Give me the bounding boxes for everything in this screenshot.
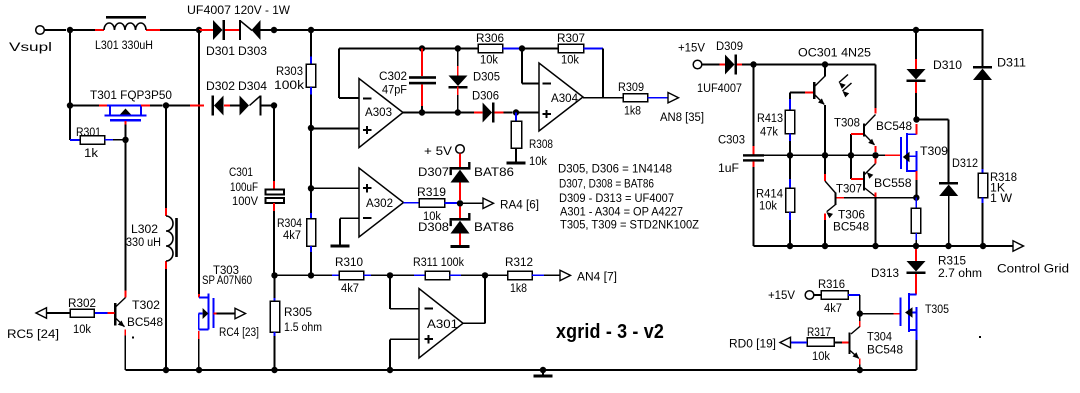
label Control Grid [997,262,1069,276]
svg-text:4k7: 4k7 [824,301,842,315]
label R317 value 10k [812,349,831,363]
junction R318 rail [980,243,986,249]
wire to R305 [274,275,276,301]
label D303 [238,44,267,58]
label D311 [997,56,1026,70]
wire red D301 anode [199,29,213,31]
diode D312 [939,182,958,246]
svg-text:D310: D310 [933,58,962,72]
svg-text:D307: D307 [418,165,449,179]
wire to RA4 arrow [460,202,483,204]
junction R413 bottom [787,152,793,158]
resistor R318 [978,169,988,246]
label R318 [990,170,1017,184]
svg-text:10k: 10k [529,154,548,168]
wire node to D308 [459,207,461,219]
label AN4 [7] [577,270,617,284]
wire 5V to D307 [459,154,461,168]
junction A303 plus node [308,125,314,131]
svg-text:A304: A304 [551,91,578,105]
svg-text:1.5 ohm: 1.5 ohm [284,320,322,334]
svg-text:R311 100k: R311 100k [413,255,465,269]
wire R305 to rail [274,332,276,370]
label L302 [131,222,158,236]
arrow RC5 [36,308,47,318]
wire column to A302 [310,128,312,188]
svg-text:T305: T305 [925,302,949,316]
transistor T307 BC558 [864,159,876,198]
svg-text:2.7 ohm: 2.7 ohm [938,266,982,280]
wire main top rail [311,29,916,31]
svg-text:L302: L302 [131,222,158,236]
label D308 [418,220,449,234]
label RA4 [6] [500,198,539,212]
wire top rail to D311 corner [916,29,983,66]
svg-text:AN4 [7]: AN4 [7] [577,270,617,284]
label +5V [424,144,453,158]
label R301 [76,125,101,139]
svg-text:R312: R312 [505,255,533,269]
label D301 [206,44,235,58]
wire left column to R301 [70,106,80,141]
wire base column [851,134,864,179]
label R306 [476,31,504,45]
svg-text:C301: C301 [229,165,253,179]
svg-text:10k: 10k [480,53,499,67]
wire A302 output [404,202,420,204]
label T307 [836,182,862,196]
label R316 [818,277,845,291]
svg-text:4k7: 4k7 [283,228,301,242]
label RD0 [19] [729,337,776,351]
label A302 [366,196,393,210]
wire C column down [273,106,275,190]
label D304 [238,79,267,93]
label OC301 4N25 [798,46,871,60]
wire red D302 row left [190,105,204,107]
wire T302 base [95,312,115,314]
junction R305 row [271,272,277,278]
wire 15V rail right [754,64,876,66]
svg-text:D302: D302 [206,79,235,93]
svg-text:R302: R302 [68,296,96,310]
wire A303 minus feedback [339,49,359,99]
junction RA4 node [457,200,463,206]
label D313 [871,266,899,280]
label A304 [551,91,578,105]
terminal +15V lower [805,291,814,300]
junction R414 rail [787,243,793,249]
wire Vsupl column down [69,30,71,106]
wire C303 top [753,65,755,155]
diode D313 [907,246,926,294]
resistor R311 [425,271,485,279]
svg-text:OC301 4N25: OC301 4N25 [798,46,871,60]
svg-text:D309: D309 [716,39,743,53]
svg-text:1UF4007: 1UF4007 [697,81,742,95]
label RC5 [24] [7,327,59,341]
label R413 [757,111,783,125]
svg-text:D313: D313 [871,266,899,280]
svg-text:120V - 1W: 120V - 1W [234,3,290,17]
svg-text:A301 - A304 = OP A4227: A301 - A304 = OP A4227 [560,204,683,218]
wire A301 plus input [390,339,419,370]
resistor R317 [791,338,835,347]
label R414 [756,187,783,201]
label T306 [838,208,865,222]
label R303 value 100k [274,78,305,92]
node Vsupl terminal [36,26,66,35]
resistor R312 [508,271,560,279]
label UF4007 [187,3,231,17]
mosfet T309 STD2NK100Z [901,124,917,195]
svg-text:T309: T309 [920,144,948,158]
svg-text:T305, T309 = STD2NK100Z: T305, T309 = STD2NK100Z [560,217,699,231]
wire A302 minus input [340,218,359,244]
ground at A302 [331,245,350,248]
svg-text:BC548: BC548 [127,315,163,329]
wire A301 minus input [390,275,419,308]
label D312 [952,156,978,170]
junction T309 source [913,194,919,200]
junction R305 rail [271,367,277,373]
svg-text:SP A07N60: SP A07N60 [202,273,252,287]
resistor R413 [785,93,795,156]
label D306 [472,89,499,103]
arrow AN8 [668,93,679,103]
svg-text:A302: A302 [366,196,393,210]
junction A304 plus node [513,109,519,115]
wire red D306 cathode [495,112,513,114]
label D307 [418,165,449,179]
note A301-A304 [560,204,683,218]
resistor R414 [786,155,795,246]
label D309 1UF4007 [697,81,742,95]
svg-text:BC548: BC548 [833,220,869,234]
label D302 [206,79,235,93]
wire T303 gate red [198,294,200,298]
svg-text:R305: R305 [284,305,312,319]
stray dot [132,337,134,339]
svg-text:D309 - D313 = UF4007: D309 - D313 = UF4007 [559,191,674,205]
svg-text:+15V: +15V [678,41,706,55]
wire A303 plus input [311,128,359,130]
label C301 value 100V [232,194,259,208]
wire T302 collector red [125,291,127,298]
junction T303 rail [196,367,202,373]
label A301 [427,317,458,331]
svg-text:47k: 47k [760,125,779,139]
label R315 [938,254,966,268]
wire T303 source down [198,331,200,370]
junction T304 emitter rail [857,367,863,373]
wire gate column down [125,140,127,291]
wire to R312 [485,274,508,276]
op-amp A302 [359,168,404,237]
wire red D309 out [737,64,754,66]
wire D307 to node [459,183,461,201]
svg-text:T307: T307 [836,182,862,196]
label R319 value 10k [423,209,442,223]
wire T306 base row [837,197,917,199]
svg-text:D306: D306 [472,89,499,103]
label R310 [335,255,363,269]
note D307 D308 [559,177,654,191]
opto phototransistor OC301 [814,65,825,156]
label C303 [718,133,745,147]
junction T307 rail [872,243,878,249]
junction T306 rail [822,243,828,249]
svg-text:Control Grid: Control Grid [997,262,1069,276]
svg-text:RA4 [6]: RA4 [6] [500,198,539,212]
wire L302 column top [165,106,167,209]
wire mid row [754,154,901,156]
svg-text:10k: 10k [561,53,580,67]
label T301 FQP3P50 [90,88,172,102]
junction D310 top [913,27,919,33]
wire L302 to rail [165,269,167,370]
junction D305 top [455,45,461,51]
label T304 BC548 [867,343,903,357]
title xgrid - 3 - v2 [556,320,664,343]
wire T301 drain to D302 row [166,105,190,107]
svg-text:47pF: 47pF [382,83,407,97]
svg-text:RC4 [23]: RC4 [23] [219,325,259,339]
transistor T303 SPA07N60 [199,294,235,330]
label AN8 [35] [660,110,704,124]
svg-text:R307: R307 [557,31,585,45]
junction D-column top [196,27,202,33]
junction ground tap [540,367,546,373]
label R309 value 1k8 [624,104,641,118]
label T303 [213,263,239,277]
svg-text:1uF: 1uF [718,161,739,175]
transistor T308 BC548 [864,115,876,153]
label T307 BC558 [874,176,912,190]
svg-text:D312: D312 [952,156,978,170]
diode D310 [907,31,926,120]
diode D309 [725,55,737,75]
wire top rail to R303 [274,29,311,31]
wire T304 base [834,342,849,344]
label R302 [68,296,96,310]
junction T301 source [67,102,73,108]
svg-text:R319: R319 [417,185,446,199]
wire D304 to C column [261,105,274,107]
diode D302 [212,96,224,116]
junction A301 minus node [387,272,393,278]
svg-text:T302: T302 [132,298,160,312]
svg-text:R310: R310 [335,255,363,269]
terminal +5V [456,145,465,154]
svg-text:xgrid - 3 - v2: xgrid - 3 - v2 [556,320,664,343]
arrow RD0 [780,337,791,347]
svg-text:D305, D306 = 1N4148: D305, D306 = 1N4148 [558,162,672,176]
label R304 value 4k7 [283,228,301,242]
label R309 [618,80,644,94]
svg-text:BC548: BC548 [867,343,903,357]
svg-text:1k: 1k [84,146,99,160]
label R301 value 1k [84,146,99,160]
label L301 330uH [95,38,153,52]
wire R316 down [859,295,861,314]
diode D301 [213,20,225,40]
wire A303 output row [403,112,474,114]
wire A301 output [463,275,485,323]
resistor R319 [419,199,457,207]
svg-text:R317: R317 [807,325,831,339]
junction C-column top [271,27,277,33]
wire A302 plus input [311,187,359,189]
wire to T301 source [70,105,107,107]
diode D303 zener 120V [239,20,261,40]
label T305 [925,302,949,316]
svg-text:D305: D305 [473,70,500,84]
resistor R302 [47,309,95,317]
label R315 value [938,266,982,280]
svg-text:L301 330uH: L301 330uH [95,38,153,52]
junction 15V rail [750,61,756,67]
label R311 100k [413,255,465,269]
svg-text:D303: D303 [238,44,267,58]
diode D304 zener [240,96,262,116]
svg-text:+15V: +15V [768,288,796,302]
label C302 value 47pF [382,83,407,97]
label R316 value 4k7 [824,301,842,315]
capacitor C301 [266,190,285,204]
label T302 BC548 [127,315,163,329]
svg-text:RC5 [24]: RC5 [24] [7,327,59,341]
junction A302 plus node [308,185,314,191]
transistor T306 BC548 [825,155,836,246]
junction opto emitter row [822,152,828,158]
label C303 value 1uF [718,161,739,175]
capacitor C302 [409,49,436,113]
wire D303 to C-column [261,29,275,31]
svg-text:D308: D308 [418,220,449,234]
diode D305 [449,49,468,113]
svg-text:R316: R316 [818,277,845,291]
label R302 value 10k [73,322,92,336]
label A303 [365,105,392,119]
label D309 [716,39,743,53]
label R306 value 10k [480,53,499,67]
wire feedback row y48 [339,48,478,50]
arrow Control Grid [1013,241,1024,251]
wire A304 output [583,97,623,99]
label T302 [132,298,160,312]
svg-text:A301: A301 [427,317,458,331]
label D310 [933,58,962,72]
svg-text:RD0 [19]: RD0 [19] [729,337,776,351]
transistor T301 FQP3P50 [105,106,163,137]
svg-text:100uF: 100uF [230,180,258,194]
label R318 value 1 W [990,191,1012,205]
svg-text:BC558: BC558 [874,176,912,190]
ground at R308 [507,162,526,165]
wire L301 to D301 junction [160,29,199,31]
label R414 value 10k [759,199,778,213]
junction at Vsupl column [67,27,73,33]
resistor R316 [814,291,860,300]
wire C301 bottom [273,203,275,275]
inductor L302 [166,208,178,269]
wire gate to T305 [860,313,901,315]
arrow AN4 [560,270,571,280]
svg-text:D307, D308 = BAT86: D307, D308 = BAT86 [559,177,654,191]
note D309-D313 [559,191,674,205]
label R317 [807,325,831,339]
junction L302 rail [163,367,169,373]
resistor R310 [339,271,390,279]
label D308 BAT86 [474,220,514,234]
junction T309 drain [913,116,919,122]
label 120V - 1W [234,3,290,17]
wire to R307 [522,48,558,50]
label C301 [229,165,253,179]
diode D307 BAT86 [450,162,471,183]
wire top rail to L301 [70,29,95,31]
label R312 [505,255,533,269]
junction driver emitter node [872,152,878,158]
junction T305 gate node [857,310,863,316]
terminal +15V top [693,60,702,69]
label T304 [867,330,892,344]
resistor R301 [80,136,122,145]
svg-text:4k7: 4k7 [341,281,359,295]
wire R304 bottom [310,246,312,275]
svg-text:C302: C302 [379,69,407,83]
svg-text:R309: R309 [618,80,644,94]
svg-text:100V: 100V [232,194,259,208]
svg-text:330 uH: 330 uH [126,235,161,249]
junction opto collector [822,61,828,67]
label T306 BC548 [833,220,869,234]
diode D311 [973,66,992,169]
resistor R305 [270,301,280,332]
label R319 [417,185,446,199]
svg-text:Vsupl: Vsupl [9,40,52,54]
label R307 value 10k [561,53,580,67]
label D307 BAT86 [474,165,514,179]
junction C301 top node [271,102,277,108]
junction C302 top [419,45,425,51]
svg-text:C303: C303 [718,133,745,147]
label R305 value [284,320,322,334]
label +15V top [678,41,706,55]
label RC4 [23] [219,325,259,339]
junction R303 top [308,27,314,33]
wire A304 minus input [522,49,539,84]
svg-text:D311: D311 [997,56,1026,70]
svg-text:D304: D304 [238,79,267,93]
op-amp A301 [419,289,463,359]
label R318 value 1K [990,181,1006,195]
label R413 value 47k [760,125,779,139]
svg-text:R413: R413 [757,111,783,125]
junction R301 gate node [122,137,128,143]
label T308 [834,116,860,130]
resistor R306 [478,44,520,52]
wire rail corner down [875,65,877,114]
wire drain to D312 [917,120,949,183]
wire D column down [198,30,200,294]
ground symbol bottom [534,370,553,376]
label R308 [529,137,553,151]
resistor R309 [623,94,668,102]
resistor R307 [558,44,603,52]
svg-text:D301: D301 [206,44,235,58]
